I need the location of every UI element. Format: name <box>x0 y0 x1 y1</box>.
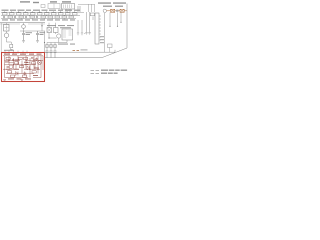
wire band right verticals <box>87 12 94 33</box>
resistor R5 <box>31 13 36 15</box>
wire stub left <box>84 33 85 35</box>
wire long bus lower with diagonal <box>45 48 128 58</box>
capacitor C20 (red) <box>7 67 10 68</box>
wire left edge <box>0 23 2 52</box>
wire red v mid <box>22 56 34 78</box>
wire mid rail <box>0 22 45 24</box>
connector J1 pins <box>99 16 101 40</box>
switch S2 cross <box>47 28 52 33</box>
wire red h4 <box>3 68 40 70</box>
wire drops to bottom <box>47 43 55 52</box>
resistor R15 <box>41 16 46 18</box>
wire red h6 <box>5 77 42 79</box>
ground G7 <box>85 33 88 35</box>
fuse F2 <box>120 9 124 12</box>
label C2 text <box>40 32 46 35</box>
highlight box red <box>2 53 45 82</box>
transformer T1 windings <box>64 5 72 9</box>
wire red v right <box>38 56 43 78</box>
connector J1 <box>95 13 99 44</box>
capacitor C21 (red) <box>24 72 27 76</box>
capacitor C4 <box>50 51 53 58</box>
label legend 2 <box>101 73 118 74</box>
label above red box <box>4 50 14 51</box>
resistor R12 <box>8 16 13 18</box>
resistor R7 <box>45 13 50 15</box>
wire cluster links <box>47 23 67 43</box>
resistor R10 <box>66 13 71 15</box>
ground G6 <box>36 41 39 43</box>
resistor R28 <box>54 28 59 33</box>
label pin text <box>100 36 104 43</box>
label between fuses <box>116 10 118 12</box>
label mid text <box>58 44 75 45</box>
box M1 <box>48 4 60 9</box>
wire band leads texture <box>5 11 75 19</box>
wire band right upper verticals <box>78 4 95 12</box>
resistor R42 <box>50 45 53 48</box>
ic U1 pins <box>63 31 72 37</box>
lamp L1 <box>103 9 106 12</box>
resistor R41 <box>46 45 49 48</box>
capacitor C23 (red) <box>12 58 15 61</box>
label red text <box>4 54 42 80</box>
label text top-left <box>20 1 71 3</box>
wire right edge <box>126 4 128 49</box>
lamp L2 <box>22 25 26 29</box>
box M1 divider <box>53 4 55 9</box>
label legend 1 <box>101 70 127 71</box>
wire T1 leads <box>66 6 80 12</box>
resistor R2 <box>10 13 15 15</box>
label band text row 2 <box>2 19 75 20</box>
red subcircuit wires <box>3 56 43 78</box>
resistor R32 (red) <box>24 57 28 59</box>
capacitor C24 (red) <box>31 56 34 59</box>
resistor R14 <box>30 16 35 18</box>
resistor R8 <box>52 13 57 15</box>
transistor Q10 strokes <box>39 62 41 64</box>
capacitor C5 <box>54 51 57 58</box>
label near arrows <box>81 49 88 50</box>
ground G10 <box>81 33 83 35</box>
diode D1 (red) <box>16 72 19 76</box>
resistor R38 (red) <box>23 75 27 77</box>
node J <box>41 25 42 26</box>
transformer T1 <box>62 4 75 10</box>
wire right of caps <box>44 31 46 52</box>
wire red v left <box>5 56 19 78</box>
wire long bus upper <box>45 50 115 52</box>
relay K2 small <box>108 44 113 48</box>
wire lamp drop <box>23 23 25 31</box>
capacitor C13 <box>36 16 38 19</box>
capacitor C10 <box>3 16 5 19</box>
wire red h5 <box>6 73 34 75</box>
legend line 1 <box>91 69 100 71</box>
resistor R35 (red) <box>20 66 24 68</box>
wire red h1 <box>3 55 43 57</box>
ground G8 <box>88 33 91 35</box>
label U1 top text <box>60 27 71 28</box>
transistor Q1 <box>57 34 61 38</box>
resistor R43 <box>54 45 57 48</box>
resistor R18 <box>62 16 67 18</box>
ground G21 (red) <box>21 79 24 82</box>
motor M2 <box>4 33 9 38</box>
resistor R1 <box>3 13 8 15</box>
label cluster text <box>47 25 74 26</box>
resistor R30 (red) <box>6 57 10 59</box>
wire band bus C <box>1 17 76 19</box>
resistor R11 <box>73 13 78 15</box>
wire left column <box>7 23 12 45</box>
label C1 text <box>26 32 33 35</box>
node N1 <box>48 37 49 38</box>
resistor R37 (red) <box>11 75 15 77</box>
connector arrows orange <box>73 49 80 51</box>
switch S3 <box>10 44 13 47</box>
label text top-right <box>98 2 126 6</box>
wire mid rail 2 <box>0 23 45 25</box>
wire red extra <box>9 63 35 69</box>
resistor R44 <box>90 13 94 16</box>
resistor R16 <box>48 16 53 18</box>
resistor R4 <box>24 13 29 15</box>
resistor R19 <box>69 16 74 18</box>
capacitor C3 <box>46 51 49 58</box>
resistor R45 (red) <box>19 57 23 59</box>
resistor R17 <box>55 16 60 18</box>
wire right drops <box>110 12 121 26</box>
wire cap rail <box>20 30 45 32</box>
relay K1 <box>4 25 10 32</box>
ground G4 <box>10 48 13 51</box>
diode D2 (red) <box>27 66 30 70</box>
wire orange feed <box>107 10 128 12</box>
capacitor C1 <box>22 31 25 41</box>
legend line 2 <box>91 72 100 74</box>
resistor R33 (red) <box>32 62 36 64</box>
ground G5 <box>22 41 25 43</box>
label band text row 1 <box>2 10 81 11</box>
relay K1 mark <box>5 26 9 31</box>
wire connector drop <box>104 13 106 52</box>
transistor Q10 (red) <box>38 61 42 65</box>
capacitor C22 (red) <box>35 58 38 62</box>
wire entries into box <box>5 51 27 55</box>
node dots band <box>18 12 65 16</box>
box M0 <box>41 5 45 8</box>
wire K2 lead <box>109 48 111 53</box>
resistor R31 (red) <box>15 62 19 64</box>
wire drop x78/82 <box>78 20 82 33</box>
wire red h2 <box>5 60 44 62</box>
capacitor C12 <box>25 16 27 19</box>
resistor R13 <box>19 16 24 18</box>
resistor R6 <box>38 13 43 15</box>
ground G20 (red) <box>3 79 6 82</box>
wire node drop <box>41 23 43 31</box>
resistor R34 (red) <box>8 71 12 73</box>
capacitor C11 <box>14 16 16 19</box>
ground G9 <box>77 33 79 35</box>
capacitor C2 <box>36 31 39 41</box>
resistor R3 <box>17 13 22 15</box>
fuse F1 <box>111 9 115 12</box>
wire red h3 <box>5 64 37 66</box>
switch S2 <box>47 28 52 33</box>
resistor R36 (red) <box>32 71 36 73</box>
transistor Q11 (red) <box>9 65 13 69</box>
resistor R9 <box>59 13 64 15</box>
node dots red <box>8 60 38 70</box>
node N2 <box>44 42 45 43</box>
node ends right drops <box>109 22 121 27</box>
wire band bus B <box>1 14 80 16</box>
ic U1 <box>62 29 73 40</box>
wire band bus A <box>1 11 84 13</box>
